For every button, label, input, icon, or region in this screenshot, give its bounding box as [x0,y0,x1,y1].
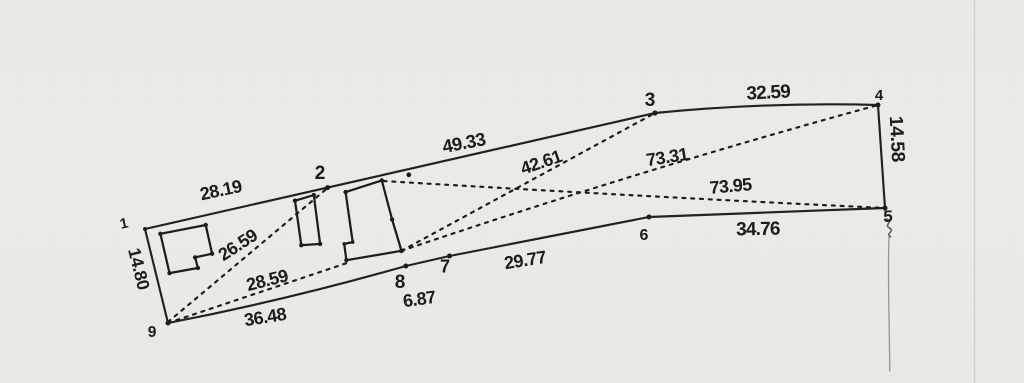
svg-text:7: 7 [440,257,450,277]
svg-text:5: 5 [883,207,892,226]
svg-text:14.58: 14.58 [885,115,908,162]
svg-text:8: 8 [395,272,406,293]
svg-text:73.95: 73.95 [709,174,753,198]
svg-text:9: 9 [148,324,157,341]
svg-text:6: 6 [640,227,649,244]
svg-text:4: 4 [875,87,884,104]
svg-text:34.76: 34.76 [736,219,780,241]
svg-text:2: 2 [315,163,326,184]
svg-text:3: 3 [645,90,656,111]
svg-text:32.59: 32.59 [746,81,791,104]
